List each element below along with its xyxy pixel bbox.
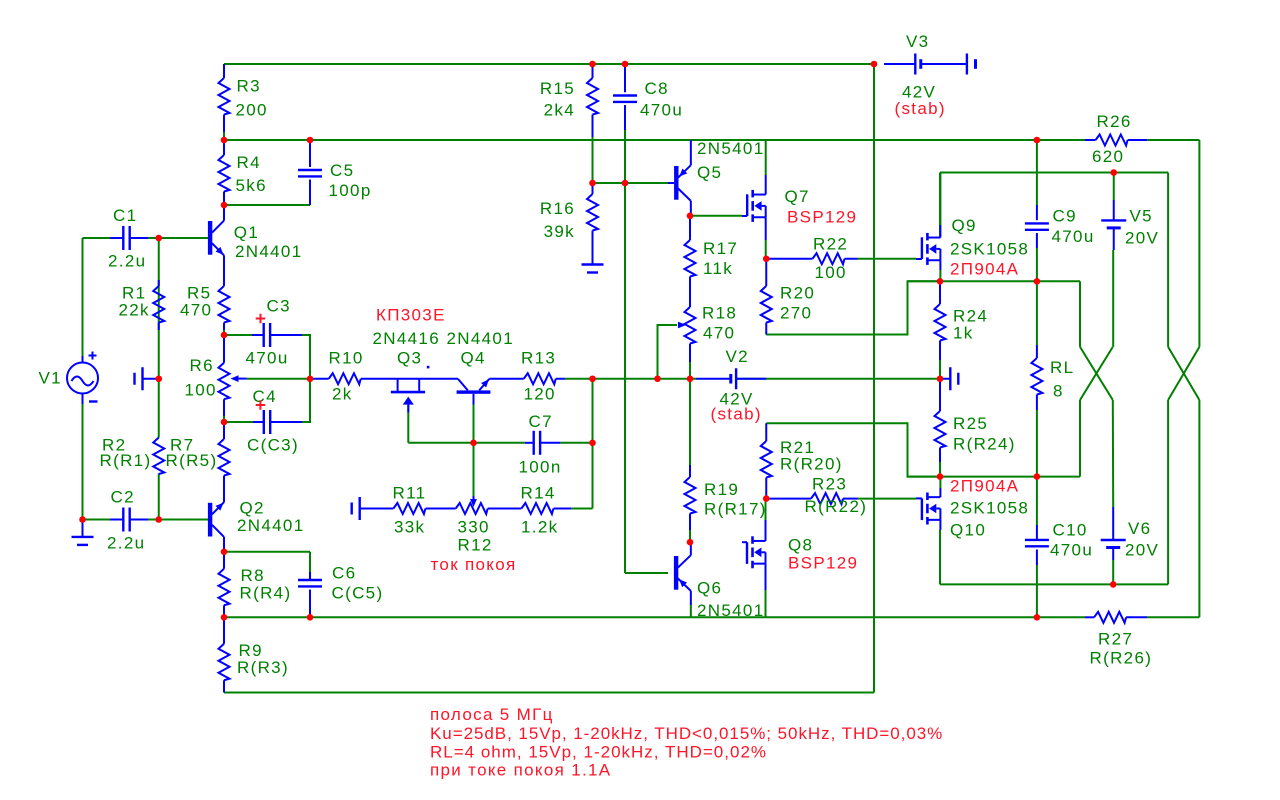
svg-text:470: 470 (703, 324, 735, 343)
svg-text:R15: R15 (540, 79, 575, 98)
resistor R1 (158, 280, 160, 286)
wire right X lower left (1167, 400, 1169, 584)
wire C9 top (1036, 140, 1038, 205)
svg-text:R20: R20 (780, 284, 815, 303)
svg-text:470u: 470u (1052, 227, 1095, 246)
wire V5 top node (940, 172, 1168, 174)
resistor R24 (939, 281, 941, 304)
svg-text:Ku=25dB, 15Vp, 1-20kHz, THD<0,: Ku=25dB, 15Vp, 1-20kHz, THD<0,015%; 50kH… (430, 724, 943, 743)
JFET Q3 2N4416 (397, 379, 399, 391)
svg-text:R25: R25 (953, 414, 988, 433)
MOSFET Q10 2SK1058 (926, 493, 929, 501)
wire V3 vertical rail (873, 64, 875, 693)
svg-text:R27: R27 (1098, 630, 1133, 649)
svg-text:100p: 100p (329, 181, 372, 200)
wire output return row (940, 583, 1168, 585)
resistor R3 (223, 64, 225, 78)
wire X crossover left pair (1080, 347, 1113, 400)
wire C9 bottom to node (1036, 248, 1038, 281)
wire R14 right corner (571, 508, 592, 510)
svg-text:полоса 5 МГц: полоса 5 МГц (430, 705, 554, 724)
svg-text:C8: C8 (645, 79, 669, 98)
svg-text:Q2: Q2 (240, 499, 265, 518)
resistor R17 (689, 216, 691, 240)
resistor R8 (223, 552, 225, 569)
battery V3 42V (884, 63, 915, 65)
svg-text:33k: 33k (394, 518, 425, 537)
svg-text:C1: C1 (113, 206, 137, 225)
resistor R23 (766, 498, 811, 500)
voltage source V1 (67, 363, 98, 394)
MOSFET Q9 2SK1058 (926, 233, 929, 241)
ground under V1 (82, 520, 84, 537)
wire Q3 gate down corner (407, 405, 409, 443)
svg-text:R13: R13 (521, 349, 556, 368)
svg-text:2N4416: 2N4416 (373, 329, 440, 348)
battery V6 20V (1112, 507, 1114, 540)
svg-text:R22: R22 (813, 235, 848, 254)
ground at R11 (360, 508, 394, 510)
svg-text:R16: R16 (540, 199, 575, 218)
svg-text:R10: R10 (329, 349, 364, 368)
wire C4 left to R6/R7 node (224, 421, 253, 423)
wire bottom rail (224, 692, 874, 694)
svg-text:R11: R11 (393, 484, 427, 503)
svg-text:R26: R26 (1097, 112, 1132, 131)
wire V5 top lead (1113, 173, 1115, 201)
svg-text:Q4: Q4 (461, 349, 486, 368)
wire V1 bottom (82, 394, 84, 520)
wire R22 to Q9 gate (858, 258, 917, 260)
wire C7 right to vertical (560, 442, 592, 444)
svg-text:Q6: Q6 (697, 579, 722, 598)
capacitor C4 polarized (253, 421, 264, 423)
svg-text:620: 620 (1092, 147, 1124, 166)
resistor R22 (766, 258, 812, 260)
resistor R13 (489, 378, 523, 380)
svg-text:R17: R17 (703, 239, 738, 258)
svg-text:V5: V5 (1130, 207, 1153, 226)
svg-text:2.2u: 2.2u (108, 252, 146, 271)
svg-text:R(R1): R(R1) (100, 451, 152, 470)
resistor R4 (223, 140, 225, 155)
svg-text:2N5401: 2N5401 (697, 139, 764, 158)
svg-text:470u: 470u (1050, 541, 1093, 560)
svg-text:R3: R3 (237, 77, 261, 96)
svg-text:2SK1058: 2SK1058 (950, 240, 1029, 259)
svg-text:V3: V3 (906, 32, 929, 51)
wire R25 bottom node (908, 476, 1081, 478)
wire Q5 collector to Q7 gate (690, 215, 742, 217)
svg-text:2.2u: 2.2u (107, 534, 145, 553)
svg-text:100n: 100n (519, 458, 562, 477)
svg-text:R8: R8 (241, 566, 265, 585)
ground under R16 (592, 231, 594, 265)
svg-text:R(R26): R(R26) (1090, 649, 1153, 668)
svg-text:V1: V1 (39, 369, 62, 388)
wire X crossover right pair (1168, 347, 1199, 400)
svg-text:R19: R19 (704, 480, 739, 499)
svg-text:R(R22): R(R22) (805, 497, 868, 516)
svg-text:R(R5): R(R5) (166, 451, 218, 470)
svg-text:C9: C9 (1053, 207, 1077, 226)
svg-text:R12: R12 (458, 536, 493, 555)
wire input vertical V1 to C1 (82, 238, 84, 356)
svg-text:330: 330 (458, 518, 490, 537)
wire C8 vertical to Q6 base (624, 130, 626, 573)
svg-text:2П904А: 2П904А (950, 260, 1019, 279)
capacitor C6 (309, 572, 311, 580)
svg-text:470u: 470u (246, 349, 289, 368)
resistor R21 (765, 423, 767, 441)
resistor R11 (393, 503, 425, 514)
battery V2 42V (696, 378, 731, 380)
svg-text:20V: 20V (1125, 541, 1159, 560)
wire R14 column vertical (592, 379, 594, 509)
svg-text:(stab): (stab) (895, 99, 946, 118)
MOSFET Q8 BSP129 (751, 536, 754, 544)
svg-text:Q1: Q1 (234, 223, 259, 242)
svg-text:RL: RL (1050, 358, 1074, 377)
wire R26 right vertical (1198, 140, 1200, 347)
svg-text:Q7: Q7 (785, 187, 810, 206)
svg-text:Q8: Q8 (788, 536, 813, 555)
svg-text:BSP129: BSP129 (787, 208, 857, 227)
svg-text:2N4401: 2N4401 (235, 242, 302, 261)
wire C6 vertical (309, 552, 311, 572)
wire R27 right vertical (1198, 400, 1200, 617)
svg-text:1.2k: 1.2k (521, 518, 558, 537)
capacitor C9 (1036, 205, 1038, 220)
wire R21 top jog (766, 423, 940, 476)
svg-text:39k: 39k (544, 222, 575, 241)
svg-text:при токе покоя 1.1A: при токе покоя 1.1A (430, 761, 611, 780)
svg-text:Q5: Q5 (697, 163, 722, 182)
wire main row R13 to V2 (565, 378, 696, 380)
svg-text:2П904А: 2П904А (950, 477, 1019, 496)
resistor R27 (1085, 616, 1094, 618)
transistor Q6 2N5401 (674, 556, 678, 590)
wire Q10 source row (939, 530, 941, 584)
wire Q9 source corner down (1079, 281, 1081, 347)
svg-text:C3: C3 (267, 297, 291, 316)
wire rail to R26 right corner (1147, 139, 1199, 141)
svg-text:100: 100 (815, 263, 847, 282)
svg-text:2SK1058: 2SK1058 (950, 499, 1029, 518)
wire V6 bottom (1112, 560, 1114, 584)
svg-text:C(C5): C(C5) (332, 584, 384, 603)
svg-text:8: 8 (1053, 382, 1064, 401)
resistor R20 (765, 259, 767, 286)
wire main row V2 to right ground (736, 378, 940, 380)
resistor R26 (1037, 139, 1085, 141)
svg-text:2N4401: 2N4401 (447, 329, 514, 348)
svg-text:BSP129: BSP129 (788, 554, 858, 573)
wire Q4 base down to R12 wiper (473, 405, 475, 497)
svg-text:R14: R14 (521, 484, 556, 503)
svg-text:R(R20): R(R20) (780, 455, 843, 474)
capacitor C7 (525, 442, 534, 444)
capacitor C10 (1036, 525, 1038, 540)
svg-text:5k6: 5k6 (236, 176, 267, 195)
MOSFET Q7 BSP129 (751, 190, 754, 198)
wire C4 row (302, 379, 310, 422)
svg-text:R23: R23 (812, 475, 847, 494)
ground right at output (940, 378, 950, 380)
resistor R19 (689, 379, 691, 465)
junction dots (221, 137, 228, 144)
wire R18 wiper jog (658, 325, 678, 379)
svg-text:1k: 1k (953, 324, 974, 343)
svg-text:V6: V6 (1128, 519, 1151, 538)
capacitor C3 polarized (252, 334, 263, 336)
svg-text:C2: C2 (111, 488, 135, 507)
wire X to V6 top (1112, 400, 1114, 507)
svg-text:R(R17): R(R17) (704, 500, 767, 519)
svg-text:20V: 20V (1125, 229, 1159, 248)
wire R2 bottom (158, 474, 160, 520)
wire Q9 source node (908, 280, 1081, 282)
svg-text:C7: C7 (529, 412, 553, 431)
svg-text:C10: C10 (1053, 521, 1088, 540)
svg-text:(stab): (stab) (711, 405, 762, 424)
transistor Q2 2N4401 (208, 503, 212, 537)
resistor R16 (592, 183, 594, 194)
wire Q9 drain up (939, 173, 941, 238)
capacitor C5 (309, 140, 311, 167)
ground at input divider (143, 378, 159, 380)
wire Q2 collector node to C6 (224, 551, 310, 553)
resistor R14 (521, 503, 553, 514)
svg-text:200: 200 (236, 101, 268, 120)
svg-text:11k: 11k (703, 259, 733, 278)
resistor R5 (223, 255, 225, 286)
svg-text:22k: 22k (119, 301, 150, 320)
svg-text:270: 270 (780, 304, 812, 323)
wire RL leads (1036, 281, 1038, 345)
svg-text:ток покоя: ток покоя (431, 555, 517, 574)
wire R20 bottom jog (766, 281, 940, 334)
svg-text:Q9: Q9 (952, 216, 977, 235)
svg-text:R(R24): R(R24) (953, 435, 1016, 454)
svg-text:R6: R6 (190, 356, 214, 375)
svg-text:Q3: Q3 (397, 349, 422, 368)
svg-text:470: 470 (180, 301, 212, 320)
transistor Q5 2N5401 (674, 166, 678, 200)
wire C10 top (1036, 477, 1038, 525)
wire Q6 base (625, 572, 668, 574)
wire V5 X-swap corner down (1079, 400, 1081, 477)
load resistor RL (1036, 345, 1038, 358)
svg-text:2N5401: 2N5401 (697, 601, 764, 620)
wire C1 to Q1 base (148, 237, 208, 239)
wire C3 left (224, 334, 252, 336)
svg-text:100: 100 (185, 381, 217, 400)
transistor Q4 2N4401 sideways (457, 390, 491, 393)
capacitor C2 (110, 519, 123, 521)
svg-text:470u: 470u (640, 101, 683, 120)
wire V5 bottom to X (1112, 250, 1114, 347)
resistor R7 (223, 422, 225, 439)
wire R27 right corner up (1147, 616, 1199, 618)
wire second rail (R4 top node) (224, 139, 1085, 141)
resistor R2 (153, 438, 164, 475)
wire R1 column (158, 238, 160, 438)
wire C2 to Q2 base (148, 519, 208, 521)
wire C7 node row (408, 442, 525, 444)
wire C2 row (83, 519, 111, 521)
battery V5 20V (1113, 200, 1115, 220)
wire C1 input row (83, 237, 111, 239)
svg-text:V2: V2 (726, 347, 749, 366)
svg-text:R(R4): R(R4) (240, 584, 292, 603)
svg-text:C(C3): C(C3) (247, 436, 299, 455)
resistor R10 (310, 378, 329, 380)
wire right X upper left (1167, 173, 1169, 347)
transistor Q1 2N4401 (208, 221, 212, 255)
svg-text:120: 120 (524, 385, 556, 404)
svg-text:RL=4 ohm, 15Vp, 1-20kHz, THD=: RL=4 ohm, 15Vp, 1-20kHz, THD=0,02% (430, 743, 767, 762)
resistor R15 (592, 64, 594, 78)
wire feedback row R8/R9 node (224, 616, 1085, 618)
svg-text:R4: R4 (237, 153, 261, 172)
capacitor C1 (110, 237, 123, 239)
potentiometer R18 (685, 307, 696, 344)
svg-text:2N4401: 2N4401 (237, 516, 304, 535)
wire C3 right vertical (302, 335, 310, 379)
svg-text:C6: C6 (332, 564, 356, 583)
wire main analog row (247, 378, 310, 380)
svg-text:R(R3): R(R3) (237, 658, 289, 677)
wire Q5/Q6 base bias node (593, 182, 675, 184)
potentiometer R12 (456, 503, 488, 514)
potentiometer R6 (223, 335, 225, 363)
svg-text:КП303Е: КП303Е (376, 306, 446, 325)
svg-text:C4: C4 (253, 387, 277, 406)
resistor R9 (223, 617, 225, 643)
wire R4 bottom to C5 (224, 204, 310, 206)
capacitor C8 (624, 64, 626, 92)
svg-text:2k4: 2k4 (544, 101, 575, 120)
resistor R25 (939, 379, 941, 411)
wire R23 to Q10 gate (858, 498, 917, 500)
wire +42V top rail (224, 63, 874, 65)
svg-text:C5: C5 (330, 161, 354, 180)
svg-text:Q10: Q10 (950, 521, 986, 540)
svg-text:R18: R18 (702, 304, 737, 323)
wire C10 bottom (1036, 565, 1038, 617)
svg-text:2k: 2k (332, 385, 353, 404)
